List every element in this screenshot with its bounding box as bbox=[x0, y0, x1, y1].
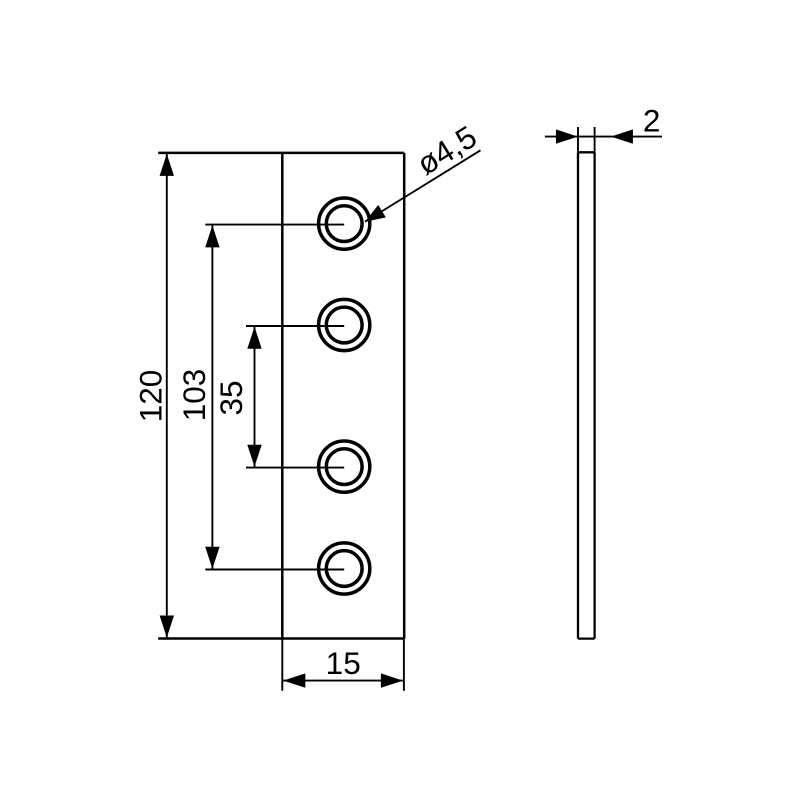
dimension 120 bottom arrow bbox=[160, 616, 174, 638]
hole 3 inner circle bbox=[326, 449, 362, 485]
dimension 2 line bbox=[545, 136, 662, 138]
plate top edge with extension bbox=[158, 152, 404, 155]
hole diameter leader line bbox=[365, 150, 481, 221]
hole 4 center line bbox=[205, 569, 344, 571]
hole 1 inner circle bbox=[326, 206, 362, 242]
dimension 2 left extension line bbox=[577, 127, 579, 152]
side view bottom edge bbox=[578, 637, 595, 639]
dimension 120 line bbox=[166, 154, 168, 638]
dimension 15 right arrow bbox=[381, 673, 403, 687]
dimension 15 line bbox=[283, 680, 403, 682]
svg-text:35: 35 bbox=[213, 380, 249, 415]
hole 3 center line bbox=[246, 467, 344, 469]
hole 4 inner circle bbox=[326, 551, 362, 587]
dimension 35 line bbox=[254, 326, 256, 468]
hole 1 center line bbox=[205, 224, 344, 226]
svg-text:2: 2 bbox=[643, 103, 661, 139]
hole 4 outer circle bbox=[319, 543, 370, 594]
svg-text:ø4,5: ø4,5 bbox=[410, 118, 483, 182]
dimension 2 right extension line bbox=[594, 127, 596, 152]
svg-text:103: 103 bbox=[176, 369, 212, 422]
dimension 2 left arrow bbox=[556, 129, 578, 143]
hole diameter leader arrow bbox=[365, 205, 386, 222]
dimension 103 top arrow bbox=[205, 225, 219, 247]
plate right edge bbox=[403, 153, 406, 639]
svg-text:15: 15 bbox=[326, 645, 361, 681]
side view top edge bbox=[578, 151, 595, 153]
dimension 120 top arrow bbox=[160, 154, 174, 176]
hole 3 outer circle bbox=[319, 441, 370, 492]
dimension 15 left extension line bbox=[281, 639, 283, 691]
hole 1 outer circle bbox=[319, 198, 370, 249]
dimension 15 left arrow bbox=[283, 673, 305, 687]
dimension 103 line bbox=[211, 225, 213, 570]
side view left edge bbox=[577, 152, 579, 638]
dimension 2 right arrow bbox=[611, 129, 633, 143]
hole 2 center line bbox=[246, 325, 344, 327]
dimension 35 top arrow bbox=[247, 327, 261, 349]
svg-text:120: 120 bbox=[133, 370, 169, 423]
hole 2 outer circle bbox=[319, 299, 370, 350]
dimension 35 bottom arrow bbox=[247, 445, 261, 467]
dimension 103 bottom arrow bbox=[205, 547, 219, 569]
plate bottom edge with extension bbox=[158, 637, 404, 640]
side view right edge bbox=[593, 152, 595, 638]
dimension 15 right extension line bbox=[403, 639, 405, 691]
plate left edge bbox=[281, 153, 284, 639]
hole 2 inner circle bbox=[326, 307, 362, 343]
